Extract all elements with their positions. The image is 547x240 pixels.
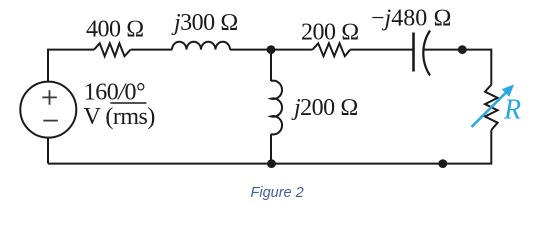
svg-text:j200 Ω: j200 Ω <box>291 95 358 121</box>
minus sign inside source <box>43 120 58 122</box>
resistor R 400ohm zigzag <box>94 43 131 56</box>
arrow through variable resistor R <box>472 85 515 128</box>
wire bottom-left up to source <box>47 138 49 164</box>
node dot top right <box>458 45 467 54</box>
wire capacitor to top-right corner <box>424 50 492 85</box>
wire below R to bottom-right corner <box>48 130 491 164</box>
inductor j200 vertical <box>271 81 282 135</box>
middle branch wire bottom <box>270 134 272 164</box>
wire between 400 resistor and j300 inductor <box>131 49 172 51</box>
inductor j300 <box>172 42 230 50</box>
middle branch wire top <box>270 50 272 81</box>
node dot bottom right <box>438 159 447 168</box>
svg-text:200 Ω: 200 Ω <box>301 19 359 45</box>
angle underline <box>110 102 146 104</box>
wire top-left from source to resistor <box>48 50 94 138</box>
node dot bottom middle <box>267 159 276 168</box>
capacitor C -j480 left plate <box>412 33 415 72</box>
svg-text:−j480 Ω: −j480 Ω <box>371 5 452 31</box>
capacitor C -j480 curved plate <box>423 31 430 76</box>
node dot top middle <box>267 45 276 54</box>
wire 200 resistor to capacitor <box>350 49 413 51</box>
voltage source circle <box>20 82 76 138</box>
svg-text:400 Ω: 400 Ω <box>86 16 144 42</box>
svg-text:R: R <box>503 95 521 126</box>
variable resistor R zigzag <box>485 85 498 130</box>
svg-text:Figure 2: Figure 2 <box>251 185 304 201</box>
plus sign inside source <box>42 90 57 105</box>
svg-text:j300 Ω: j300 Ω <box>171 10 238 36</box>
svg-text:V (rms): V (rms) <box>84 104 155 130</box>
svg-text:160/0°: 160/0° <box>84 79 145 105</box>
wire inductor to node A <box>230 49 313 51</box>
resistor 200ohm zigzag <box>313 43 351 56</box>
